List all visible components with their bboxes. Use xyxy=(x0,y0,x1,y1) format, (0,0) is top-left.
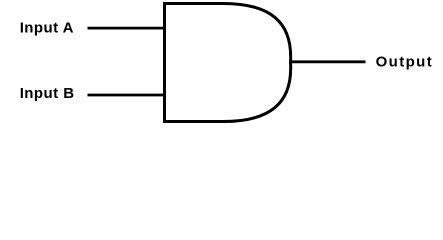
wire input A xyxy=(88,27,167,30)
svg-text:Input A: Input A xyxy=(20,20,74,37)
svg-text:Output: Output xyxy=(376,53,434,70)
wire input B xyxy=(88,94,167,97)
and-gate U1 xyxy=(165,4,291,122)
wire output xyxy=(290,60,366,63)
svg-text:Input B: Input B xyxy=(20,85,75,102)
